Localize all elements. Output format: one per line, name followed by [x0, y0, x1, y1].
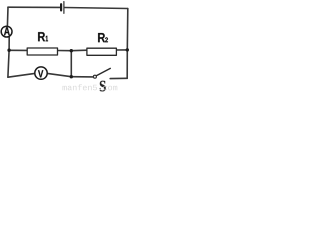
wire ammeter to top-left corner [6, 7, 9, 26]
wire middle left (junction to R1) [9, 49, 27, 51]
node: junction dot left rail [7, 49, 10, 52]
wire mid junction to voltmeter [47, 73, 71, 76]
label S (switch) [100, 81, 106, 92]
ammeter letter A [4, 27, 10, 35]
resistor R1 body [27, 48, 57, 55]
label R2 [98, 33, 105, 42]
battery cell: long thin positive bar [63, 2, 65, 14]
switch S pivot contact [93, 75, 96, 78]
voltmeter V circle [35, 67, 47, 79]
node: junction dot right rail [126, 48, 129, 51]
wire R1 to mid junction [57, 50, 71, 52]
voltmeter letter V [38, 70, 43, 77]
resistor R2 body [87, 48, 117, 55]
ammeter A circle [1, 26, 12, 37]
wire left rail lower [8, 50, 9, 77]
watermark manfen5.com [63, 84, 118, 90]
wire right rail [126, 9, 129, 79]
node: junction dot middle bottom [70, 75, 73, 78]
wire switch to mid junction [71, 76, 93, 78]
switch S lever [96, 68, 110, 75]
wire vertical link between junctions [70, 51, 72, 77]
wire bottom-right (rail to switch) [110, 77, 127, 79]
wire R2 to right rail [116, 49, 127, 51]
node: junction dot middle top [70, 49, 73, 52]
label R1 subscript 1 [46, 36, 48, 42]
wire left rail between ammeter and left junction [8, 37, 10, 50]
wire mid junction to R2 [71, 49, 87, 52]
label R2 subscript 2 [105, 37, 108, 42]
battery cell: short thick negative bar [60, 4, 62, 10]
wire top-left horizontal [8, 6, 60, 8]
label R1 [38, 32, 45, 41]
wire voltmeter to bottom-left corner [8, 73, 35, 77]
wire top-right horizontal [65, 8, 128, 9]
